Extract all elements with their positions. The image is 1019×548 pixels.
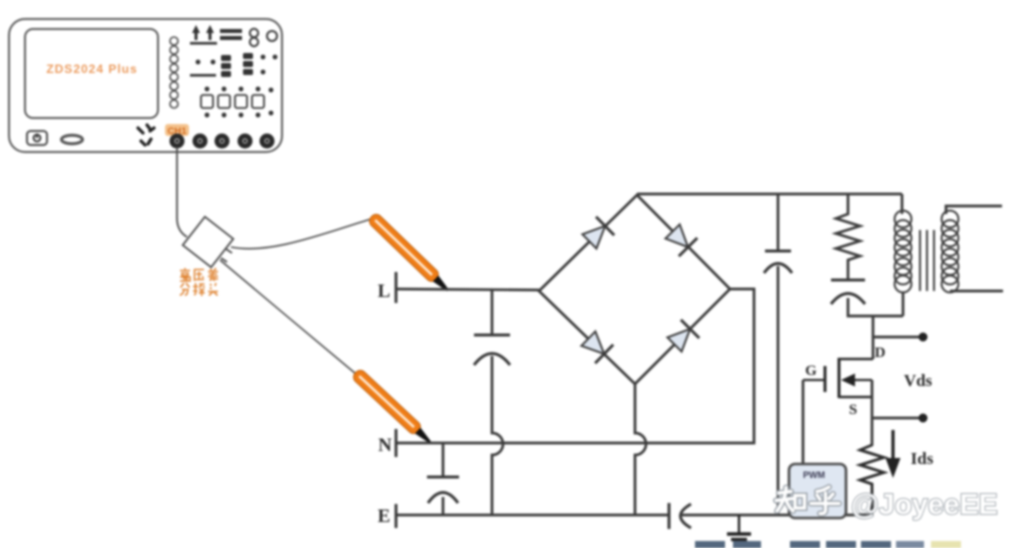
oscilloscope screen: [25, 29, 158, 118]
cable to upper probe: [231, 219, 371, 249]
capacitor CX2 N to E (flat plate): [442, 443, 445, 477]
capacitor C-snubber flat plate: [831, 279, 865, 282]
wire secondary top lead: [946, 206, 1002, 214]
wire CX1 down with hop over N: [492, 356, 503, 515]
upper probe (orange): [367, 212, 452, 295]
svg-text:ZDS2024 Plus: ZDS2024 Plus: [46, 62, 137, 76]
svg-text:G: G: [805, 363, 817, 379]
Ids arrow: [891, 430, 894, 461]
压: [194, 270, 204, 282]
diode D3 lower-left: [579, 329, 613, 363]
cable to lower probe: [220, 260, 356, 374]
usb port: [62, 135, 83, 143]
oscilloscope body: [9, 19, 282, 152]
wire drain drop from primary bottom: [872, 316, 875, 359]
wire secondary bottom lead: [950, 290, 1003, 293]
capacitor CX2 curved plate: [428, 493, 458, 504]
run/stop buttons: [250, 29, 277, 46]
diode D1 upper-left: [580, 217, 614, 251]
高: [180, 268, 190, 281]
BNC connector CH4: [240, 136, 250, 146]
bottom cut-off thumbnails: [695, 541, 961, 548]
wire CX2 to E: [442, 497, 445, 515]
svg-text:L: L: [378, 281, 391, 302]
transformer secondary winding: [942, 211, 959, 293]
capacitor C-Y curved plate: [681, 504, 692, 528]
CH1 label: [165, 124, 189, 136]
svg-text:Vds: Vds: [904, 371, 933, 390]
wire source to Vds node: [871, 380, 874, 446]
capacitor C-bulk flat plate: [777, 194, 780, 251]
分: [180, 283, 190, 296]
label 高压差分探头 (drawn strokes): [180, 268, 218, 296]
lower probe (orange): [351, 368, 434, 447]
transformer primary winding: [901, 194, 904, 214]
乎 glyph: [811, 487, 839, 514]
BNC connector CH3: [217, 136, 227, 146]
探: [193, 283, 205, 296]
node L terminal: [395, 272, 398, 303]
wire CH1 to probe box: [177, 147, 187, 237]
trigger knobs row: [190, 25, 242, 45]
svg-text:D: D: [875, 345, 886, 361]
diode D4 lower-right: [665, 320, 699, 354]
node dot drain: [919, 333, 928, 342]
node dot source: [919, 414, 928, 423]
BNC connector CH1: [172, 136, 182, 146]
svg-text:S: S: [849, 402, 857, 418]
menu button column: [170, 37, 178, 108]
BNC connector CH2: [195, 136, 205, 146]
resistor R-sense: [860, 445, 884, 515]
wire drain to Vds node: [873, 336, 923, 339]
capacitor C-Y plate: [668, 503, 671, 529]
node E terminal: [395, 504, 398, 528]
知 glyph: [776, 488, 805, 512]
wire gate to PWM: [802, 380, 805, 464]
differential probe box: [183, 217, 234, 268]
wire snubber to primary bottom: [848, 298, 903, 316]
svg-text:E: E: [378, 506, 391, 527]
capacitor CX1 L to E (flat plate): [491, 289, 494, 335]
wire E line left of Y-cap: [397, 514, 669, 517]
diode D2 upper-right: [663, 222, 697, 256]
svg-text:@JoyeeEE: @JoyeeEE: [851, 489, 998, 521]
wire L line: [397, 289, 539, 290]
transformer core: [919, 230, 921, 291]
bridge rectifier diamond: [539, 195, 730, 384]
touch hand icon: [138, 125, 154, 145]
capacitor C-snubber curved plate: [831, 294, 865, 305]
BNC connector EXT: [262, 136, 272, 146]
wire C-bulk down to ground rail: [777, 266, 780, 515]
power button: [27, 131, 47, 145]
capacitor C-bulk curved plate: [764, 264, 792, 274]
vertical control knob columns: [201, 87, 273, 118]
watermark 知乎 @JoyeeEE: [776, 487, 998, 521]
ground: [738, 515, 740, 533]
wire top DC rail: [637, 193, 902, 196]
wire bridge bottom with hop over N: [635, 384, 646, 515]
capacitor CX1 curved plate: [474, 354, 510, 366]
panel second row buttons: [190, 53, 277, 77]
wire E rail right of Y-cap: [682, 514, 872, 517]
svg-text:N: N: [378, 435, 392, 456]
node N terminal: [395, 429, 398, 457]
差: [208, 268, 218, 281]
svg-text:PWM: PWM: [803, 470, 825, 480]
mosfet Q1: [803, 358, 873, 398]
resistor R-snubber: [836, 194, 860, 262]
头: [208, 283, 218, 296]
PWM controller U1: [789, 464, 846, 518]
svg-text:Ids: Ids: [911, 449, 934, 468]
wire N line: [397, 289, 754, 443]
probe box output nubs: [221, 249, 232, 262]
